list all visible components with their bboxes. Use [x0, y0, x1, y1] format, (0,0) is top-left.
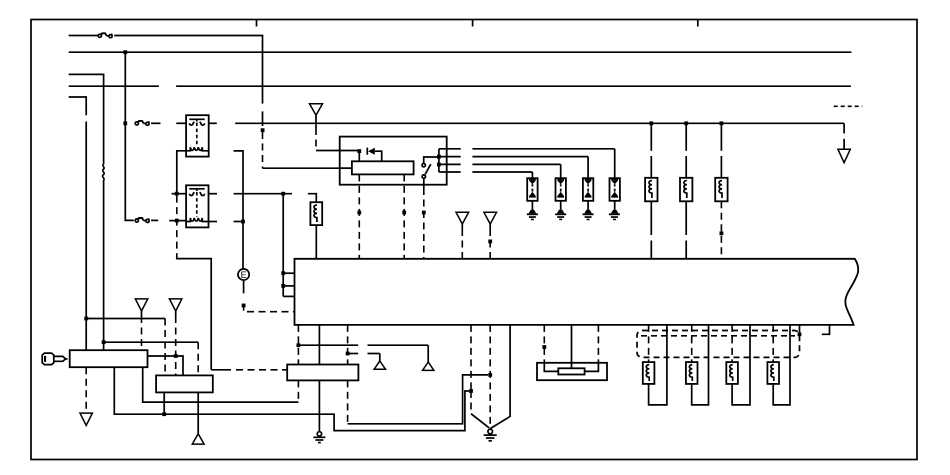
- wire T2 apex dashed to ECU top: [461, 224, 463, 229]
- diode D1 cathode bar: [366, 148, 368, 155]
- wire ECU pin x=471 dashed down: [470, 325, 472, 391]
- wire relay K2 coil right stub: [209, 221, 218, 223]
- wire F-line drop to arrow T6: [427, 345, 429, 362]
- wire bus line 4 right segment after connector break: [176, 85, 851, 87]
- wire bus line 3 to corner down: [69, 74, 104, 164]
- connector arrow T5 pointing up: [374, 361, 385, 369]
- connector box B4: [537, 363, 607, 380]
- box B3: [287, 365, 358, 381]
- wire tap down to relay block top: [358, 151, 360, 161]
- wire ECU pin x=347.6 dashed to box B3: [347, 325, 349, 365]
- wire B1 bottom E-line: [114, 367, 469, 430]
- resistor R1 unit: [645, 123, 657, 258]
- connector arrow T6 pointing up: [423, 362, 434, 370]
- wire relay K1 coil right after break corner down x=243: [234, 151, 243, 269]
- node junction dot x=490.2: [488, 373, 492, 377]
- wire relay K2 feed path to box B3: [177, 256, 211, 370]
- wire module pin 1 y=148.8: [439, 148, 461, 150]
- LED unit 3 box: [583, 178, 594, 220]
- wire resistor R4 down to ECU top: [315, 225, 317, 259]
- connector arrow T10 pointing down at main line end: [838, 149, 850, 163]
- wire F-line to corner: [298, 344, 358, 346]
- node junction dot diode anode tap: [357, 149, 361, 153]
- relay K1 armature dashed link: [196, 123, 198, 147]
- wire solid into module U1 relay block left: [263, 167, 352, 169]
- relay K1 contact bar: [189, 119, 204, 125]
- connector arrow T1 pointing down: [310, 104, 323, 115]
- node junction dot on K2 coil feed crossing: [175, 219, 179, 223]
- wire module pin 3 drop to LED unit 2: [560, 164, 562, 178]
- wire ECU pin x=510.1 down then diagonal to ground: [490, 325, 510, 429]
- node junction dot on bus line 2: [123, 50, 127, 54]
- node junction dot at x=243: [241, 220, 245, 224]
- node junction dot x=471: [469, 389, 473, 393]
- resistor R3 unit: [715, 123, 727, 258]
- ground G1: [313, 432, 325, 443]
- relay K2 armature dashed link: [196, 192, 198, 217]
- injector J2: [686, 325, 709, 405]
- wire main line corner down at x=844.1: [843, 123, 845, 133]
- connector arrow T4 pointing up: [192, 434, 204, 444]
- node connector dot x=243.6: [242, 304, 246, 308]
- wire module pin 3 y=164.4: [439, 163, 461, 165]
- wire vertical x=125.3 from bus line 2 down to fuse F3 corner: [125, 52, 134, 220]
- wire H1-line across and up to T3 net: [348, 375, 488, 424]
- wire T3 apex dashed to ECU top: [489, 224, 491, 229]
- node junction dot resistor R1 tap: [649, 121, 653, 125]
- tick mark 3 on top border: [697, 20, 699, 27]
- wire A-line drop dashed into B2: [164, 319, 166, 376]
- wire x=471 dashed down then diagonal to ground: [470, 391, 472, 414]
- wire vertical x=86.2 down to box B1 top: [85, 122, 87, 351]
- wire switch top to pin bar: [424, 157, 439, 164]
- wire ECU pin x=544.3 dashed down to connector box: [543, 325, 545, 363]
- wire ECU pin x=598.4 dashed down to connector box: [597, 325, 599, 363]
- tick mark 2 on top border: [472, 20, 474, 27]
- wire B4 internal left: [544, 363, 558, 372]
- node connector dot on T3 drop: [488, 240, 492, 244]
- wire T8 apex dashed down into B1: [141, 311, 143, 316]
- wire stub 2 into ECU: [283, 285, 294, 287]
- wire ECU pin x=319.4 through box B3: [318, 325, 320, 365]
- wire B2 bottom pin to E-line: [163, 392, 165, 414]
- connector arrow T3 pointing down: [484, 212, 497, 224]
- wire relay K2 coil after break to x=243 drop: [234, 221, 243, 223]
- wire below circled E: [243, 280, 245, 293]
- wire module pin 4 drop to LED unit 1: [531, 172, 533, 178]
- wire switch bottom down through box: [423, 178, 425, 188]
- wire bus line 2: [69, 51, 852, 53]
- injector J1: [643, 325, 667, 405]
- wire dashed into box B3 left: [211, 369, 231, 371]
- node junction dot at x=283.2: [281, 192, 285, 196]
- wire G-line to corner: [348, 353, 359, 355]
- wire ECU pin x=571.5 down to resistor block: [571, 325, 573, 368]
- wire B3 bottom x=347.6 dashed down to H1-line: [347, 380, 349, 423]
- wire ECU pin x=490.2 dashed down: [489, 325, 491, 429]
- LED unit 4 box: [609, 178, 620, 220]
- wire from T1 apex down across main line: [315, 115, 317, 128]
- fuse F1 on bus line 1: [98, 33, 112, 38]
- ECU main box with torn right edge: [295, 259, 859, 325]
- resistor R4 feed stub: [308, 194, 317, 203]
- wire A-line from dot to B2: [86, 318, 165, 320]
- wire after break into relay K1 contact left: [176, 122, 186, 124]
- tick mark 1 on top border: [256, 20, 258, 27]
- wire bus line 5 to corner down: [69, 97, 87, 115]
- connector arrow T8 pointing down: [135, 299, 148, 311]
- node connector dot on pin 2 drop: [402, 211, 406, 215]
- resistor R4 box: [310, 202, 322, 225]
- node junction dot K1 coil / K2 contact: [175, 192, 179, 196]
- resistor block inside B4: [558, 368, 584, 374]
- injector group dashed outline: [637, 331, 800, 358]
- node connector dot on x=544.3: [542, 345, 546, 349]
- svg-text:E: E: [241, 270, 247, 280]
- node junction dot A-line: [84, 317, 88, 321]
- resistor R2 unit: [680, 123, 692, 258]
- connector arrow T9 pointing down: [169, 299, 182, 311]
- wire module pin 2 drop to LED unit 3: [587, 157, 589, 179]
- wire T9 apex dashed down into B2: [175, 311, 177, 316]
- wire stub 1 into ECU: [283, 272, 294, 274]
- lamp symbol circled E: [238, 269, 249, 280]
- node connector dot on switch drop: [422, 211, 426, 215]
- ground G2 funnel: [484, 429, 497, 441]
- wire after break crossing junction into relay K2 coil left: [169, 220, 186, 222]
- node stub dot 1: [281, 271, 285, 275]
- node junction dot group shield tap: [798, 332, 802, 336]
- relay K1 box: [186, 115, 209, 156]
- wire module pin 2 y=156.6: [439, 156, 461, 158]
- fuse F2 on relay K1 contact feed line y=123.3: [135, 121, 149, 126]
- relay K2 box: [186, 185, 208, 227]
- LED unit 1 box: [527, 178, 538, 220]
- wire shield tap up to ECU bottom: [799, 325, 801, 333]
- injector J3: [726, 325, 750, 405]
- node junction dot resistor R2 tap: [684, 121, 688, 125]
- wire relay K2 contact left stub: [172, 193, 187, 195]
- wire ECU pin x=298.4 dashed to box B3: [297, 325, 299, 365]
- wire B1 bottom dashed to arrow T7: [85, 367, 87, 413]
- wire B1 bottom D-line to B3: [143, 367, 299, 402]
- node junction dot C-line / T9 drop: [174, 354, 178, 358]
- node stub dot 2: [281, 284, 285, 288]
- wire diode to corner down into relay block: [375, 151, 382, 161]
- injector group inner dashed line: [641, 335, 795, 337]
- fuse F3 on relay K2 coil feed line y=220.4: [135, 218, 149, 222]
- wire corner into module U1 to diode junction: [316, 150, 359, 152]
- node junction dot resistor R3 tap: [720, 121, 724, 125]
- node junction dot G-line: [346, 352, 350, 356]
- module U1 box: [340, 137, 447, 185]
- wire bus line 1 left segment: [69, 35, 98, 37]
- wire vertical x=262.5 dashed continuation to main line: [262, 111, 264, 126]
- ECU bottom right hook: [822, 325, 830, 334]
- wire B3 bottom x=319.4 down to ground G1: [318, 380, 320, 432]
- wire relay block bottom pin 1 dashed to ECU: [358, 174, 360, 258]
- switch SW1 contacts: [422, 164, 425, 167]
- relay block inner rectangle: [352, 161, 414, 174]
- wire dashed corner into ECU left edge y=311.7: [244, 304, 295, 312]
- node junction dot below main line on x=262.5: [261, 128, 265, 132]
- switch SW1 blade: [425, 164, 431, 174]
- wire stub 3 into ECU: [283, 295, 294, 297]
- wire dashed from dot down to corner: [262, 132, 264, 168]
- key symbol: [42, 353, 67, 365]
- wire fuse F3 to connector break: [151, 219, 158, 221]
- node pin bar dot 2: [437, 163, 441, 167]
- fusible link on vertical x=103.6: [102, 165, 104, 181]
- wire relay K1 coil left to junction with K2 contact: [177, 151, 186, 194]
- wire C-line B1 right edge to B2: [148, 356, 184, 375]
- wire B-line from dot to B2: [104, 341, 199, 343]
- pin bar vertical: [438, 149, 440, 172]
- wire relay block bottom pin 2 dashed to ECU: [403, 174, 405, 258]
- wire relay K1 contact right stub: [209, 122, 217, 124]
- injector J4: [767, 325, 790, 405]
- node junction dot B-line: [102, 340, 106, 344]
- dashed label line top right: [834, 105, 863, 107]
- relay K1 coil: [186, 147, 209, 151]
- wire relay K2 contact right stub: [209, 193, 218, 195]
- wire module pin 4 y=172: [439, 171, 461, 173]
- wire vertical x=283.2 down ECU left stubs: [282, 194, 284, 297]
- wire dashed down from junction crossing K2 coil wire: [176, 196, 178, 256]
- relay K2 contact bar: [189, 189, 204, 196]
- wire main line y=123.3 from break to east corner: [235, 122, 844, 124]
- wire bus line 1 right segment to corner: [114, 36, 262, 104]
- node junction dot E-line/B2: [162, 412, 166, 416]
- connector arrow T7 pointing down: [80, 413, 92, 425]
- wire bus line 4 left segment: [69, 85, 159, 87]
- wire G-line drop to arrow T5: [379, 354, 381, 361]
- wire module pin 1 drop to LED unit 4: [614, 149, 616, 178]
- node junction dot fuse F2 feed: [123, 121, 127, 125]
- resistor R4 coil squiggle: [314, 205, 317, 222]
- connector arrow T2 pointing down: [456, 212, 469, 224]
- wire fuse F2 to connector break: [151, 122, 160, 124]
- wire vertical x=103.6 continues down to box B1 top: [103, 180, 105, 350]
- wire B4 internal right: [585, 363, 599, 372]
- node pin bar dot 1: [437, 155, 441, 159]
- wire B3 bottom x=298.4 dashed down to D-line: [297, 380, 299, 402]
- wire relay K2 contact after break to ECU drop: [234, 193, 292, 195]
- node junction dot F-line: [297, 343, 301, 347]
- LED unit 2 box: [555, 178, 566, 220]
- diode D1 triangle: [368, 148, 375, 155]
- wire B-line drop dashed into B2: [197, 342, 199, 375]
- wire B2 bottom pin to arrow T4: [197, 392, 199, 433]
- box B1 ignition switch: [70, 350, 148, 367]
- node connector dot on pin 1 drop: [357, 211, 361, 215]
- box B2: [156, 375, 213, 392]
- relay K2 coil: [186, 218, 208, 222]
- wire feed into relay block left y=168.2 (from x=262.5): [340, 167, 352, 169]
